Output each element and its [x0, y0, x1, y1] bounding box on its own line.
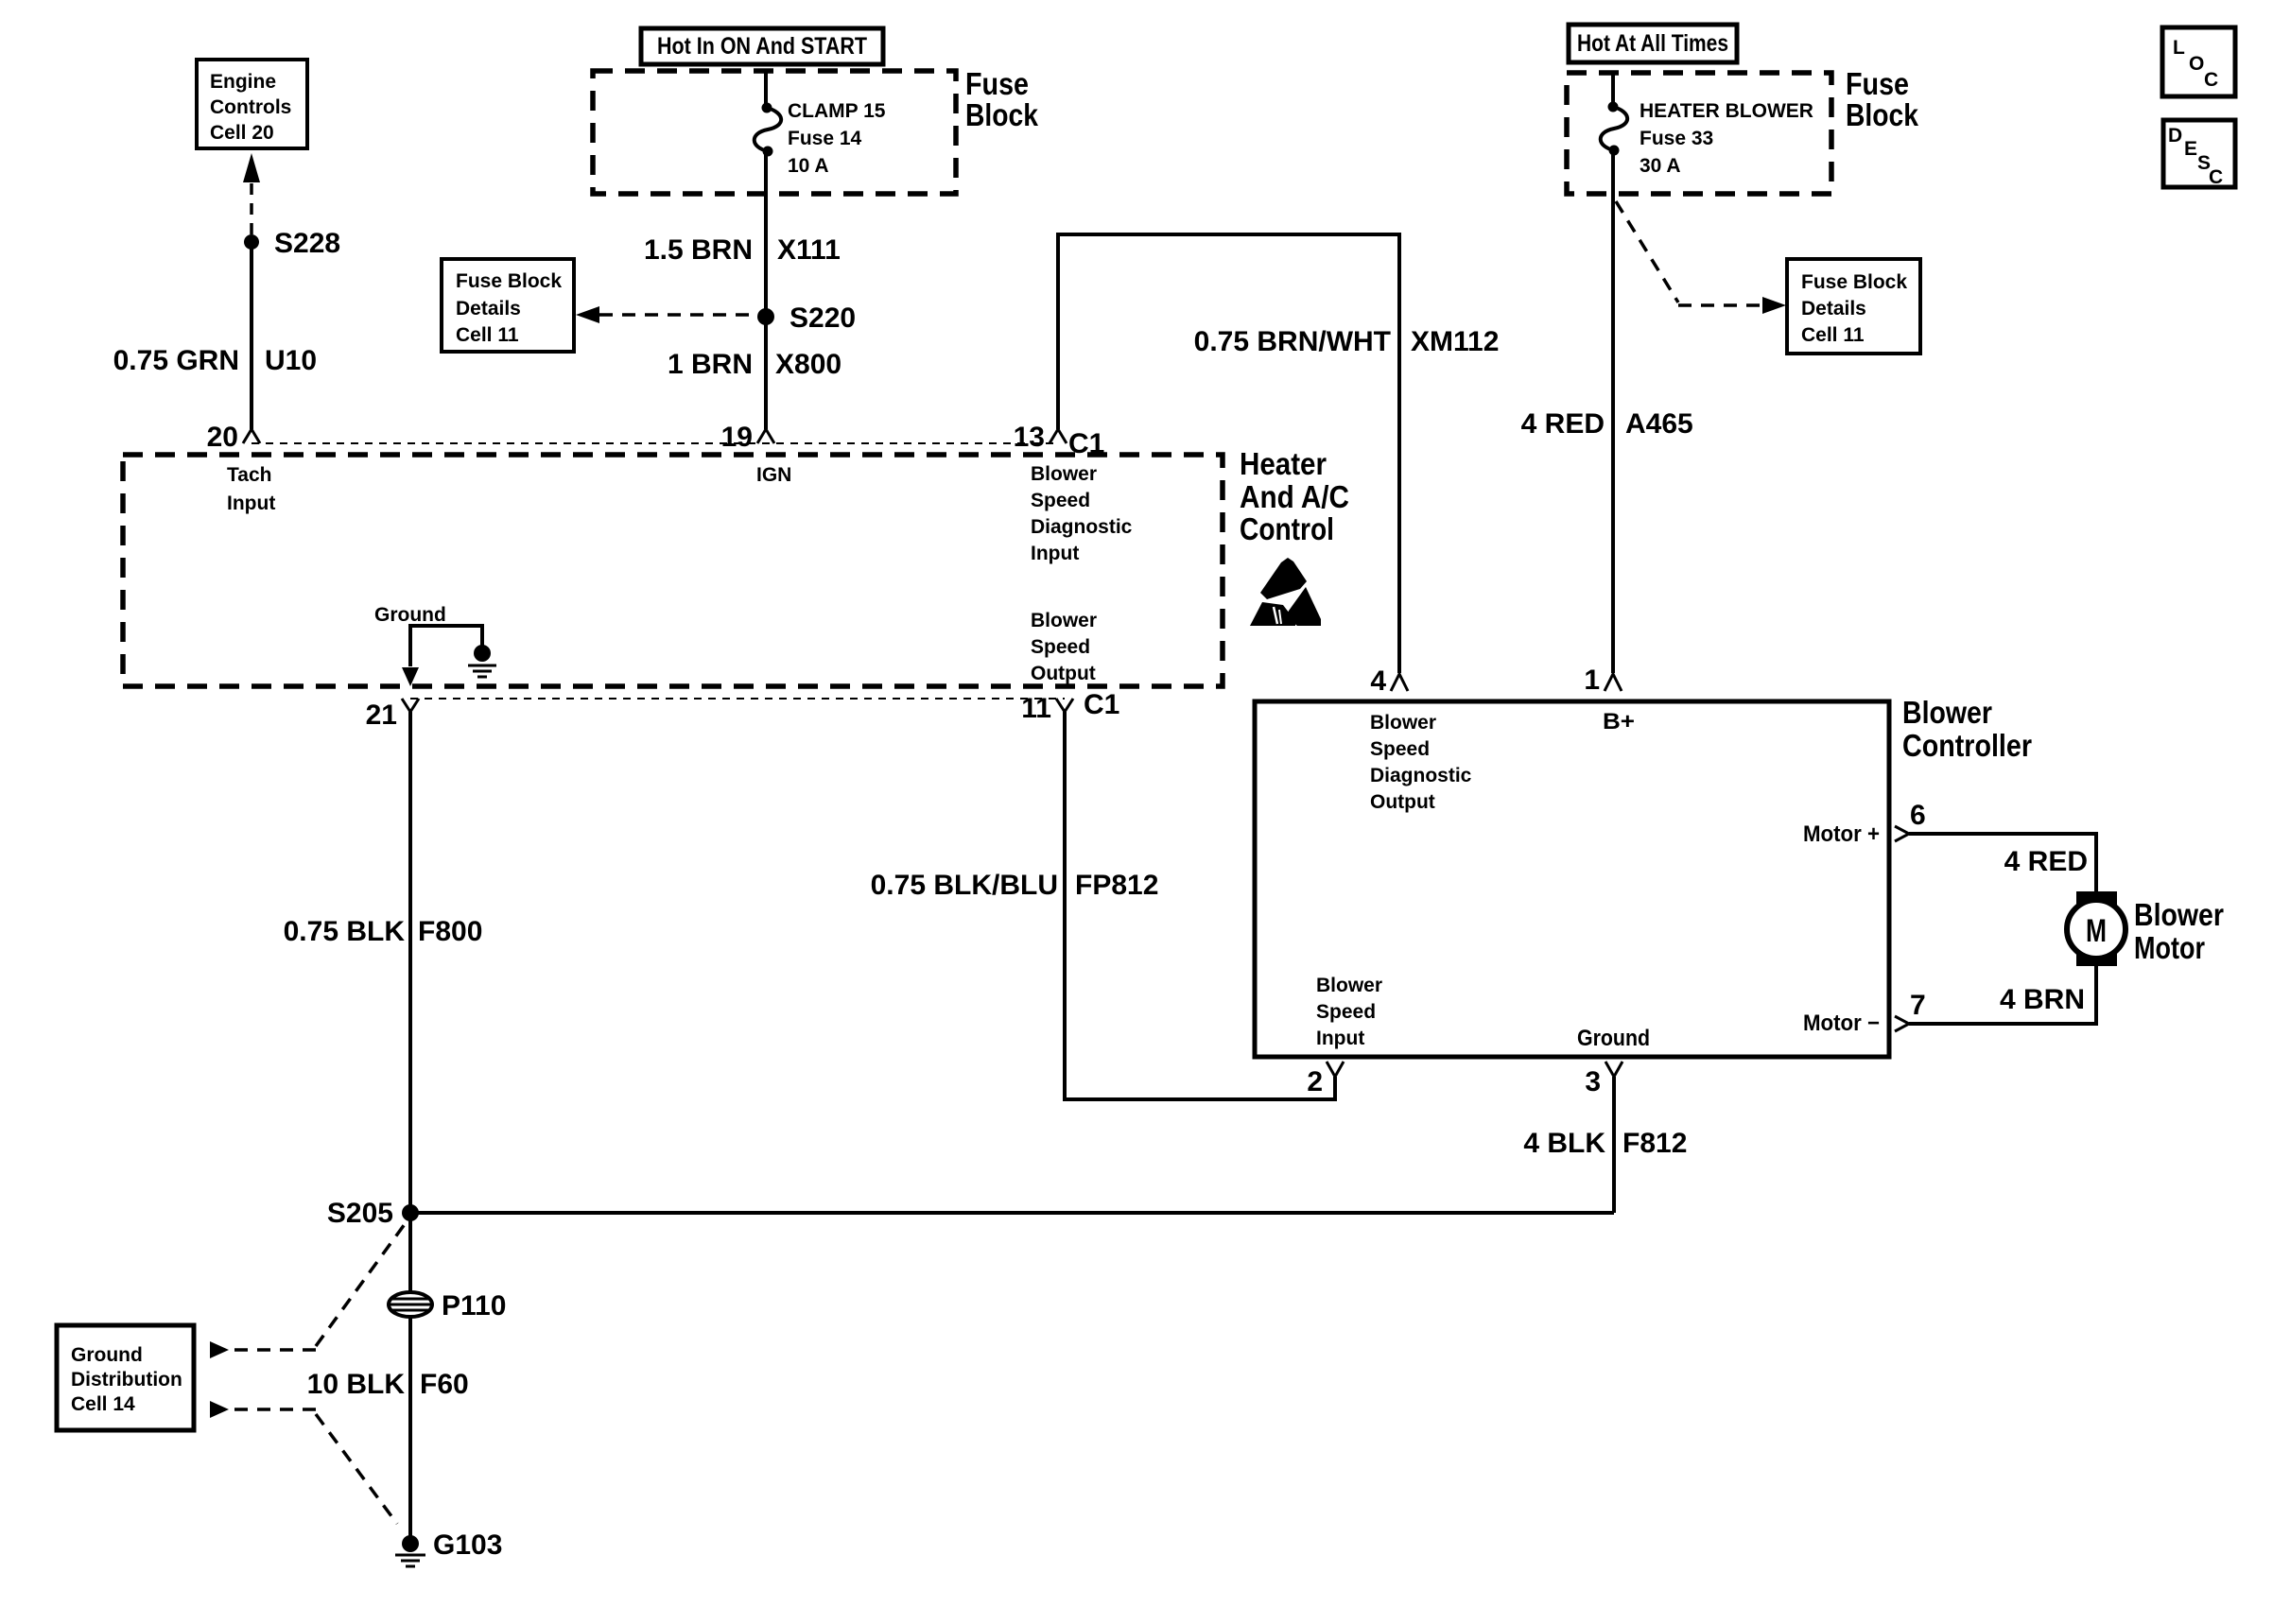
- svg-text:Diagnostic: Diagnostic: [1031, 516, 1133, 538]
- pin 21 terminal: [402, 699, 419, 712]
- pin 11 terminal: [1056, 699, 1073, 712]
- label Blower Motor: [2134, 897, 2224, 965]
- splice S220: [757, 308, 774, 325]
- svg-text:Blower: Blower: [1370, 712, 1436, 734]
- svg-text:C: C: [2209, 166, 2223, 188]
- pin 2 terminal: [1327, 1062, 1344, 1077]
- pin 6 terminal: [1895, 826, 1909, 841]
- splice S205: [402, 1204, 419, 1221]
- fuse block (battery) dashed outline: [1567, 73, 1831, 194]
- svg-text:L: L: [2173, 37, 2185, 59]
- label 4 BLK F812: [1523, 1128, 1687, 1159]
- svg-text:U10: U10: [265, 345, 317, 376]
- blower controller box: [1255, 701, 1889, 1057]
- svg-text:X111: X111: [777, 234, 841, 266]
- pin 3 terminal: [1605, 1062, 1622, 1077]
- label Blower Speed Diagnostic Output: [1370, 712, 1472, 813]
- wire F60 upper (S205 to P110): [408, 1213, 412, 1293]
- svg-text:4 RED: 4 RED: [1521, 408, 1605, 440]
- svg-text:4 RED: 4 RED: [2004, 846, 2088, 877]
- splice S228: [244, 234, 259, 250]
- wire U10 (S228 to pin 20): [250, 242, 253, 429]
- heater and A/C control module outline: [123, 455, 1223, 686]
- svg-text:Heater: Heater: [1240, 446, 1327, 481]
- label Blower Speed Output: [1031, 610, 1097, 684]
- reference box: Fuse Block Details Cell 11 (right): [1787, 259, 1920, 354]
- label 0.75 BLK/BLU FP812: [871, 870, 1159, 901]
- svg-text:Hot At All Times: Hot At All Times: [1577, 30, 1728, 57]
- svg-text:Details: Details: [456, 298, 521, 320]
- svg-text:IGN: IGN: [756, 464, 791, 486]
- wire F800 (pin 21 to S205): [408, 712, 412, 1213]
- arrowhead into Engine Controls box: [243, 153, 260, 182]
- label Fuse Block (ignition): [965, 66, 1039, 132]
- label 4 RED A465: [1521, 408, 1693, 440]
- leader arrow to ground distribution (upper): [210, 1341, 229, 1358]
- svg-text:Speed: Speed: [1316, 1001, 1376, 1023]
- svg-text:10 BLK: 10 BLK: [307, 1369, 406, 1400]
- wire 4 RED (pin 6 to motor): [1909, 834, 2096, 891]
- svg-text:Distribution: Distribution: [71, 1369, 182, 1391]
- label 1 BRN X800: [668, 349, 842, 380]
- svg-text:19: 19: [721, 422, 753, 453]
- pin 20 terminal: [243, 429, 260, 443]
- svg-text:4 BLK: 4 BLK: [1523, 1128, 1605, 1159]
- arrowhead into Fuse Block Details box: [576, 306, 599, 323]
- svg-text:Details: Details: [1801, 298, 1866, 320]
- dashed leader (lower): [234, 1409, 397, 1524]
- wire F812 (pin 3 down to ground run): [1612, 1077, 1616, 1213]
- connector C1 line (top): [252, 442, 1058, 444]
- svg-text:Blower: Blower: [2134, 897, 2224, 932]
- svg-text:Fuse Block: Fuse Block: [456, 270, 562, 292]
- wire from fuse block top to fuse F33: [1611, 73, 1615, 106]
- arrowhead into pin 21: [402, 667, 419, 686]
- svg-text:Ground: Ground: [71, 1344, 143, 1366]
- svg-text:Diagnostic: Diagnostic: [1370, 765, 1472, 786]
- svg-text:0.75 BLK: 0.75 BLK: [284, 916, 406, 947]
- internal ground wire: [410, 626, 482, 666]
- svg-text:Control: Control: [1240, 511, 1334, 546]
- svg-text:M: M: [2086, 913, 2107, 949]
- svg-text:Controls: Controls: [210, 96, 291, 118]
- svg-text:Hot In ON And START: Hot In ON And START: [657, 33, 867, 60]
- svg-text:E: E: [2184, 138, 2197, 160]
- blower motor M1: [2067, 891, 2126, 966]
- svg-text:Blower: Blower: [1902, 695, 1992, 730]
- svg-text:Motor: Motor: [2134, 930, 2205, 965]
- fuse F14 (CLAMP 15, 10 A): [755, 103, 781, 157]
- svg-text:10 A: 10 A: [788, 155, 829, 177]
- pin 19 terminal: [757, 429, 774, 443]
- svg-text:HEATER BLOWER: HEATER BLOWER: [1640, 100, 1813, 122]
- svg-text:1: 1: [1584, 665, 1600, 696]
- wire 4 BRN (pin 7 to motor): [1909, 966, 2096, 1024]
- svg-text:0.75 GRN: 0.75 GRN: [113, 345, 239, 376]
- dashed leader wire from S228 to Engine Controls box: [250, 183, 253, 234]
- svg-text:Speed: Speed: [1370, 738, 1430, 760]
- svg-text:Input: Input: [227, 492, 275, 514]
- svg-text:Engine: Engine: [210, 71, 276, 93]
- svg-text:Cell 20: Cell 20: [210, 122, 274, 144]
- svg-text:Cell 11: Cell 11: [1801, 324, 1865, 346]
- connector C1 line (bottom): [410, 698, 1065, 700]
- dashed leader from A465 wire to Fuse Block Details (right): [1616, 201, 1762, 305]
- svg-text:30 A: 30 A: [1640, 155, 1681, 177]
- svg-text:X800: X800: [775, 349, 842, 380]
- svg-text:Tach: Tach: [227, 464, 271, 486]
- svg-text:Motor +: Motor +: [1803, 821, 1880, 847]
- svg-text:Controller: Controller: [1902, 728, 2032, 763]
- svg-text:Fuse: Fuse: [1846, 66, 1909, 101]
- fuse F33 (HEATER BLOWER, 30 A): [1601, 102, 1627, 156]
- svg-text:F800: F800: [418, 916, 482, 947]
- wire from fuse block top to fuse F14: [764, 71, 768, 107]
- svg-text:7: 7: [1910, 990, 1926, 1021]
- svg-text:S205: S205: [327, 1198, 393, 1229]
- svg-text:C1: C1: [1084, 689, 1119, 720]
- ground wire S205 to pin 3: [410, 1211, 1614, 1215]
- label 0.75 BRN/WHT XM112: [1194, 326, 1500, 357]
- label 1.5 BRN X111: [644, 234, 841, 266]
- label Fuse Block (battery): [1846, 66, 1919, 132]
- svg-text:S228: S228: [274, 228, 340, 259]
- svg-text:Block: Block: [1846, 97, 1919, 132]
- svg-text:Ground: Ground: [374, 604, 446, 626]
- wire A465 (fuse 33 to pin 1): [1611, 150, 1615, 673]
- label Blower Speed Input: [1316, 975, 1382, 1049]
- label CLAMP 15 Fuse 14 10 A: [788, 100, 886, 177]
- svg-text:Fuse Block: Fuse Block: [1801, 271, 1907, 293]
- svg-text:FP812: FP812: [1075, 870, 1158, 901]
- svg-text:3: 3: [1585, 1066, 1601, 1097]
- svg-text:Speed: Speed: [1031, 636, 1090, 658]
- wire F60 lower (P110 to G103): [408, 1317, 412, 1536]
- wire FP812 (pin 11 to pin 2): [1065, 712, 1335, 1099]
- svg-text:B+: B+: [1603, 709, 1635, 734]
- label 0.75 GRN U10: [113, 345, 317, 376]
- svg-text:O: O: [2189, 53, 2204, 75]
- reference box: Fuse Block Details Cell 11 (left): [442, 259, 574, 352]
- svg-text:Ground: Ground: [1577, 1026, 1650, 1051]
- svg-text:Blower: Blower: [1316, 975, 1382, 996]
- pin 1 terminal: [1605, 674, 1622, 691]
- svg-text:Blower: Blower: [1031, 463, 1097, 485]
- svg-text:P110: P110: [442, 1290, 506, 1322]
- svg-text:Fuse: Fuse: [965, 66, 1029, 101]
- svg-text:Input: Input: [1316, 1028, 1364, 1049]
- svg-text:1 BRN: 1 BRN: [668, 349, 753, 380]
- svg-text:D: D: [2168, 125, 2182, 147]
- internal ground symbol: [468, 645, 496, 677]
- svg-text:Fuse 14: Fuse 14: [788, 128, 862, 149]
- svg-text:S220: S220: [789, 302, 856, 334]
- wire X800 (S220 to pin 19): [764, 317, 768, 429]
- arrowhead into Fuse Block Details box (right): [1762, 297, 1786, 314]
- reference box: Engine Controls Cell 20: [197, 60, 307, 148]
- svg-text:21: 21: [366, 700, 397, 731]
- svg-text:13: 13: [1014, 422, 1045, 453]
- leader arrow to ground distribution (lower): [210, 1401, 229, 1418]
- svg-text:Block: Block: [965, 97, 1039, 132]
- pin 4 terminal: [1391, 674, 1408, 691]
- ground G103: [395, 1535, 425, 1566]
- svg-text:G103: G103: [433, 1529, 502, 1561]
- label Blower Speed Diagnostic Input: [1031, 463, 1133, 564]
- header box: Hot At All Times: [1569, 25, 1737, 62]
- grommet P110: [389, 1292, 432, 1317]
- svg-text:A465: A465: [1625, 408, 1693, 440]
- svg-text:20: 20: [207, 422, 238, 453]
- svg-text:Cell 11: Cell 11: [456, 324, 519, 346]
- dashed leader from S220 to Fuse Block Details: [599, 313, 754, 317]
- LOC legend box: [2162, 27, 2235, 96]
- label Heater And A/C Control: [1240, 446, 1349, 546]
- label 0.75 BLK F800: [284, 916, 483, 947]
- reference box: Ground Distribution Cell 14: [57, 1325, 194, 1430]
- dashed leader (upper): [234, 1224, 405, 1350]
- svg-text:And A/C: And A/C: [1240, 479, 1349, 514]
- svg-text:2: 2: [1307, 1066, 1323, 1097]
- svg-text:F812: F812: [1622, 1128, 1687, 1159]
- ESD sensitivity symbol: [1250, 558, 1321, 626]
- svg-text:CLAMP 15: CLAMP 15: [788, 100, 886, 122]
- label HEATER BLOWER Fuse 33 30 A: [1640, 100, 1813, 177]
- svg-text:Output: Output: [1370, 791, 1435, 813]
- svg-text:6: 6: [1910, 800, 1926, 831]
- label Blower Controller: [1902, 695, 2032, 763]
- svg-text:0.75 BRN/WHT: 0.75 BRN/WHT: [1194, 326, 1391, 357]
- svg-text:Motor −: Motor −: [1803, 1011, 1880, 1036]
- svg-text:0.75 BLK/BLU: 0.75 BLK/BLU: [871, 870, 1058, 901]
- label 10 BLK F60: [307, 1369, 469, 1400]
- svg-text:4: 4: [1370, 665, 1386, 697]
- svg-text:4 BRN: 4 BRN: [2000, 984, 2085, 1015]
- header box: Hot In ON And START: [641, 28, 883, 64]
- wire XM112 (pin 13 up and over to pin 4): [1058, 234, 1399, 673]
- svg-text:F60: F60: [420, 1369, 469, 1400]
- pin 7 terminal: [1895, 1016, 1909, 1031]
- svg-text:XM112: XM112: [1411, 326, 1499, 357]
- fuse block (ignition) dashed outline: [593, 71, 956, 194]
- svg-text:C: C: [2204, 69, 2218, 91]
- pin 13 terminal: [1050, 429, 1067, 443]
- DESC legend box: [2163, 120, 2235, 188]
- svg-text:Input: Input: [1031, 543, 1079, 564]
- svg-text:11: 11: [1021, 693, 1051, 724]
- svg-text:Cell 14: Cell 14: [71, 1393, 135, 1415]
- svg-text:1.5 BRN: 1.5 BRN: [644, 234, 753, 266]
- wire X111 (fuse to S220): [764, 151, 768, 317]
- label Tach Input: [227, 464, 275, 514]
- svg-text:Speed: Speed: [1031, 490, 1090, 511]
- svg-text:Fuse 33: Fuse 33: [1640, 128, 1713, 149]
- svg-text:Blower: Blower: [1031, 610, 1097, 631]
- svg-text:Output: Output: [1031, 663, 1096, 684]
